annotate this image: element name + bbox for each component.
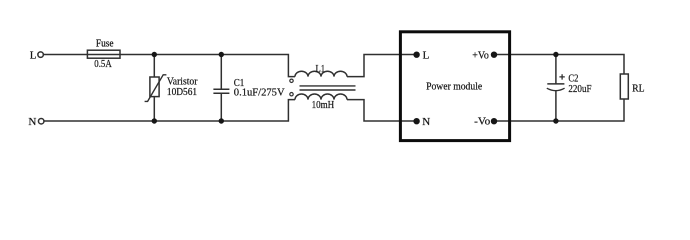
- varistor RV1 diagonal stroke: [145, 75, 167, 102]
- wire bottom rail right: -Vo to RL corner: [494, 99, 624, 121]
- pin dot module L: [413, 52, 419, 58]
- svg-text:Power module: Power module: [426, 81, 482, 93]
- svg-text:Fuse: Fuse: [96, 39, 114, 50]
- svg-text:10D561: 10D561: [167, 87, 197, 98]
- capacitor C2 leads: [555, 55, 557, 122]
- capacitor C2 curved bottom plate: [547, 88, 565, 91]
- capacitor C2 plus sign: [559, 74, 564, 79]
- junction dot C2 bottom: [553, 118, 558, 123]
- inductor L1 top winding: [295, 71, 347, 76]
- pin dot module N: [413, 118, 419, 124]
- svg-text:Varistor: Varistor: [167, 76, 198, 87]
- svg-text:L1: L1: [316, 64, 326, 75]
- svg-text:+Vo: +Vo: [472, 50, 489, 61]
- svg-text:L: L: [30, 50, 37, 62]
- pin dot module -Vo: [491, 118, 497, 124]
- varistor RV1 body: [150, 77, 159, 97]
- inductor L1 polarity dot top: [290, 79, 293, 82]
- svg-text:0.5A: 0.5A: [94, 59, 112, 70]
- svg-text:N: N: [28, 116, 36, 128]
- wire choke bottom out to power module N pin: [347, 100, 417, 121]
- svg-text:10mH: 10mH: [312, 100, 335, 111]
- capacitor C1 plates: [213, 89, 229, 93]
- fuse F1 body: [87, 50, 120, 58]
- wire bottom rail left: N terminal to choke: [44, 100, 295, 121]
- node N terminal: [38, 118, 44, 124]
- inductor L1 core lines: [300, 86, 356, 90]
- capacitor C1 leads: [220, 55, 222, 122]
- junction dot C1 top: [219, 52, 224, 57]
- svg-text:RL: RL: [632, 83, 645, 94]
- svg-text:L: L: [423, 50, 430, 62]
- wire top rail right: +Vo to RL corner: [494, 55, 624, 75]
- junction dot C2 top: [553, 52, 558, 57]
- junction dot varistor bottom: [152, 118, 157, 123]
- inductor L1 polarity dot bottom: [290, 93, 293, 96]
- resistor RL body: [620, 74, 628, 99]
- varistor RV1 leads: [153, 55, 155, 122]
- wire choke top out to power module L pin: [347, 55, 417, 77]
- capacitor C2 top plate: [547, 83, 564, 85]
- power module U1 box: [400, 32, 509, 141]
- node L terminal: [38, 52, 44, 58]
- pin dot module +Vo: [491, 52, 497, 58]
- inductor L1 bottom winding: [295, 94, 347, 100]
- svg-text:0.1uF/275V: 0.1uF/275V: [234, 88, 285, 99]
- svg-text:-Vo: -Vo: [474, 117, 490, 128]
- svg-text:220uF: 220uF: [568, 84, 591, 95]
- svg-text:N: N: [422, 116, 430, 128]
- junction dot varistor top: [152, 52, 157, 57]
- wire top rail left: L terminal to choke, through fuse: [44, 55, 295, 77]
- junction dot C1 bottom: [219, 118, 224, 123]
